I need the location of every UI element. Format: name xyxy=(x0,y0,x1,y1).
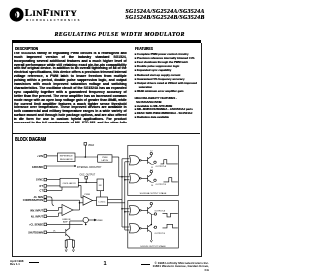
transistor Q1 output A xyxy=(141,151,166,169)
ground 2 xyxy=(72,250,74,252)
transistor Q2 output B xyxy=(141,169,166,187)
transistor Q5 output B2 xyxy=(141,224,165,235)
BLOCK DIAGRAM label xyxy=(15,137,46,143)
svg-text:PWM: PWM xyxy=(102,157,107,159)
pin CT xyxy=(39,187,62,193)
reference regulator U1 xyxy=(58,153,76,162)
wire: common emitter to ground xyxy=(150,232,152,240)
svg-text:SG1524A OUTPUT STAGE: SG1524A OUTPUT STAGE xyxy=(140,192,167,195)
title xyxy=(24,32,215,38)
wire bus A xyxy=(108,159,130,227)
svg-text:SHUTDOWN: SHUTDOWN xyxy=(28,231,43,234)
PWM latch U2 xyxy=(98,155,122,177)
svg-text:OUTPUT B: OUTPUT B xyxy=(155,233,166,235)
nor gate G4 xyxy=(130,224,142,233)
svg-text:R T: R T xyxy=(39,185,43,188)
node: to internal circuitry xyxy=(75,157,102,170)
transistor Q4 output A2 xyxy=(141,202,165,224)
svg-text:OUTPUT A: OUTPUT A xyxy=(156,165,167,168)
svg-text:OUTPUT B: OUTPUT B xyxy=(156,184,167,186)
svg-text:AMP: AMP xyxy=(63,221,68,224)
divider above block diagram xyxy=(12,132,200,135)
pin NI INPUT xyxy=(31,213,62,218)
output stage box 1 xyxy=(128,145,179,195)
svg-text:F/F: F/F xyxy=(99,185,103,187)
svg-text:+CL SENSE: +CL SENSE xyxy=(29,224,43,227)
svg-text:VREF: VREF xyxy=(88,145,95,147)
error amp U7 xyxy=(62,205,73,224)
nor gate G2 xyxy=(130,174,142,183)
pin COMPENSATION xyxy=(23,199,80,202)
resistor R2 xyxy=(72,240,74,249)
thick rule xyxy=(12,40,201,43)
wire: oscillator ramp to comparator xyxy=(78,186,83,198)
svg-text:+V IN: +V IN xyxy=(37,155,43,158)
svg-text:REFERENCE: REFERENCE xyxy=(60,156,73,158)
waveform W3 xyxy=(163,213,178,217)
FEATURES xyxy=(135,46,153,51)
svg-text:GROUND: GROUND xyxy=(32,166,43,169)
svg-text:REGULATOR: REGULATOR xyxy=(60,158,73,161)
part numbers xyxy=(0,9,205,21)
svg-text:VREF: VREF xyxy=(97,220,103,222)
svg-text:SYNC: SYNC xyxy=(36,179,43,182)
svg-text:12: 12 xyxy=(150,151,153,153)
ground 1 xyxy=(65,250,67,252)
pin SYNC xyxy=(36,178,60,181)
ground 3 xyxy=(150,240,152,242)
DESCRIPTION xyxy=(15,46,38,51)
logo wordmark xyxy=(25,7,77,19)
svg-text:INTERNAL CIRCUITRY: INTERNAL CIRCUITRY xyxy=(77,166,102,169)
content box xyxy=(12,43,202,257)
VREF pin 16 xyxy=(84,143,95,158)
output stage box 2 xyxy=(128,201,179,249)
waveform W2 xyxy=(164,178,178,182)
svg-text:INV. INPUT: INV. INPUT xyxy=(30,209,43,212)
comparator U5 xyxy=(83,194,97,205)
svg-text:14: 14 xyxy=(151,185,154,187)
pin OSC OUTPUT xyxy=(78,174,97,182)
transistor Q3 shutdown xyxy=(66,221,83,240)
pin +VIN xyxy=(37,155,57,158)
current limit source CS1 xyxy=(83,217,103,225)
svg-text:LATCH: LATCH xyxy=(101,159,108,162)
svg-text:OSCILLATOR: OSCILLATOR xyxy=(63,182,76,185)
nor gate G3 xyxy=(130,206,142,215)
logo mark xyxy=(9,7,25,23)
pin SHUTDOWN xyxy=(28,230,65,234)
wire bus B xyxy=(108,162,130,230)
svg-text:LOGIC: LOGIC xyxy=(99,201,106,203)
oscillator U3 xyxy=(60,178,78,187)
flip flop U4 xyxy=(97,179,104,197)
svg-text:PWM: PWM xyxy=(85,194,91,196)
pin INV INPUT xyxy=(30,208,62,213)
pin GROUND xyxy=(32,165,76,169)
svg-text:OUTPUT A: OUTPUT A xyxy=(155,210,166,213)
svg-text:13: 13 xyxy=(150,169,153,171)
nor gate G1 xyxy=(130,156,142,165)
svg-text:C T: C T xyxy=(39,190,43,193)
wire: comparator node to error amp output xyxy=(73,200,83,210)
resistor R1 xyxy=(65,240,73,250)
svg-text:N.I. INPUT: N.I. INPUT xyxy=(31,215,44,218)
pin -CL SENSE xyxy=(33,196,54,206)
svg-text:COMPENSATION: COMPENSATION xyxy=(23,199,43,202)
waveform W4 xyxy=(163,224,178,228)
pin +CL SENSE xyxy=(29,223,83,226)
waveform W1 xyxy=(161,160,178,164)
svg-text:SG1524 OUTPUT STAGE: SG1524 OUTPUT STAGE xyxy=(140,245,166,248)
latch/logic U6 xyxy=(97,197,108,206)
pin RT xyxy=(39,185,60,188)
